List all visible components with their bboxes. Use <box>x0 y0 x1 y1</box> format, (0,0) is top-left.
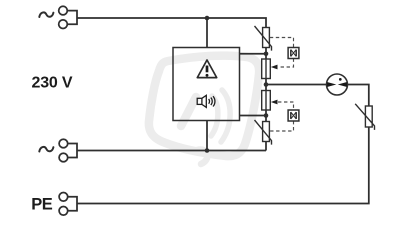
varistor RV2 <box>255 120 272 145</box>
wire gdt to RV3 <box>348 85 369 107</box>
wire box bottom <box>206 121 208 151</box>
terminal X1 (L) <box>59 6 77 28</box>
varistor RV1 <box>255 26 272 51</box>
wire node B to gas discharge tube <box>266 84 327 86</box>
signal contact S2 <box>288 110 299 121</box>
wire node A to module <box>240 53 267 55</box>
terminal X3 (PE) <box>59 193 77 216</box>
remote indication loop 2 (dashed) <box>270 102 294 131</box>
thermal disconnector F1 <box>262 59 271 79</box>
wire N <box>77 150 266 152</box>
junction node L/box <box>205 16 210 21</box>
wire RV3 to PE <box>77 127 369 204</box>
wire RV2 to N <box>265 142 267 151</box>
junction node C <box>264 113 269 118</box>
junction node A <box>264 52 269 57</box>
wire node C to module <box>240 115 267 117</box>
signal contact S1 <box>288 48 299 59</box>
wire box top <box>206 18 208 48</box>
junction node N/box <box>205 148 210 153</box>
alarm module U1 <box>173 48 240 121</box>
varistor RV3 <box>355 104 374 130</box>
thermal disconnector F2 <box>262 91 271 111</box>
wire L top <box>77 18 266 28</box>
wire F2 to RV2 <box>265 110 267 122</box>
svg-text:PE: PE <box>31 196 53 214</box>
ac symbol (tilde) for N <box>39 147 53 152</box>
ac symbol (tilde) for L <box>39 12 53 17</box>
wire RV1 to F1 <box>265 48 267 60</box>
actuator arrow F1 <box>271 65 278 70</box>
terminal X2 (N) <box>59 139 77 162</box>
junction node B <box>264 82 269 87</box>
wire F1 to F2 <box>265 79 267 91</box>
warning triangle icon <box>197 60 216 78</box>
actuator arrow F2 <box>271 100 278 105</box>
gas discharge tube F3 <box>327 74 348 95</box>
watermark logo <box>149 56 259 164</box>
svg-text:230 V: 230 V <box>32 75 73 92</box>
remote indication loop 1 (dashed) <box>270 38 294 68</box>
buzzer / speaker icon <box>197 95 215 107</box>
